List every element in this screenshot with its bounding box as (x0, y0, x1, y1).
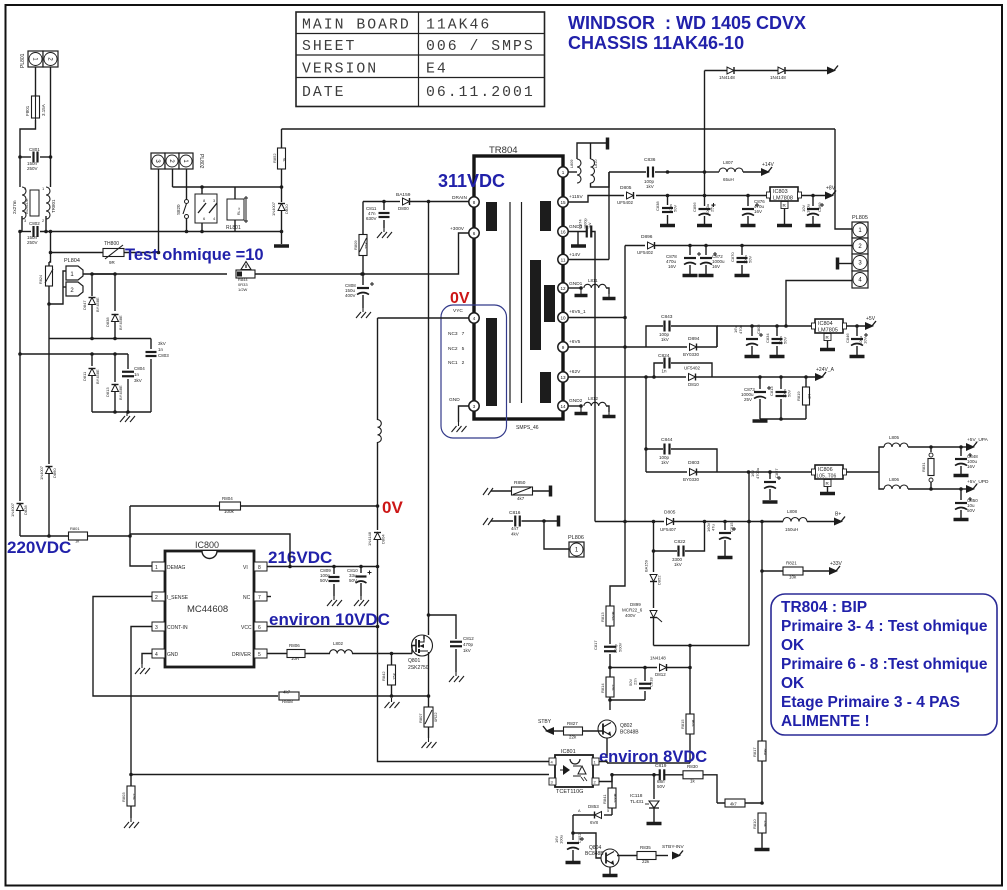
svg-text:L809: L809 (570, 160, 574, 168)
svg-text:C824: C824 (658, 353, 670, 359)
svg-text:R852: R852 (272, 153, 277, 163)
svg-text:GND1: GND1 (569, 281, 583, 287)
wire R830 right down (703, 775, 717, 803)
svg-text:C822: C822 (674, 539, 686, 545)
svg-text:D894: D894 (688, 336, 700, 342)
capacitor C815 47u 160V (706, 522, 736, 557)
IC800 pin6 VCC (241, 622, 267, 631)
ground bar TL431 (647, 822, 662, 826)
svg-text:006 / SMPS: 006 / SMPS (426, 39, 535, 55)
svg-text:1kV: 1kV (661, 337, 669, 342)
wire VI pin8 (130, 534, 290, 567)
svg-text:1k: 1k (282, 158, 287, 162)
wire DEMAG vertical (128, 506, 152, 566)
svg-text:STBY-INV: STBY-INV (662, 844, 684, 850)
wire pin1 to L809 (568, 171, 577, 173)
svg-text:+14V: +14V (762, 162, 774, 168)
wire 14V riser (608, 172, 610, 260)
wire L805 branch (879, 447, 884, 472)
svg-text:1kV: 1kV (646, 184, 654, 189)
diode D805 UF5402 (617, 185, 634, 205)
wire I_SENSE (93, 597, 152, 697)
wire opto pin2 right (599, 773, 654, 782)
ground R807 (422, 738, 437, 748)
svg-text:IC803: IC803 (773, 189, 788, 195)
svg-text:D860: D860 (52, 468, 57, 478)
wire to Q804 base (573, 833, 601, 858)
svg-text:MCR22_6: MCR22_6 (622, 608, 643, 613)
svg-text:8: 8 (473, 200, 476, 205)
blue box around primary gnd (441, 305, 507, 438)
svg-text:IC801: IC801 (561, 749, 576, 755)
ground C812 (449, 672, 464, 682)
svg-text:+5V: +5V (866, 316, 876, 322)
capacitor C811 47n 630V (366, 202, 390, 229)
svg-text:D852: D852 (657, 575, 662, 585)
svg-text:D812: D812 (655, 672, 666, 677)
svg-text:15: 15 (560, 200, 566, 205)
wire D820 to bus (280, 211, 284, 233)
diode D894 BY0330 (646, 336, 717, 357)
svg-text:UF5402: UF5402 (684, 366, 701, 371)
svg-text:IC804: IC804 (818, 321, 833, 327)
inductor L803 vertical (378, 318, 382, 442)
wire R813 chain top (610, 522, 625, 607)
wire contacts to bus (200, 223, 204, 233)
thermistor TH800 9R (103, 241, 124, 265)
wire x762 drop (761, 522, 763, 572)
wire +33V row (760, 569, 783, 573)
inductor L802 (330, 641, 353, 654)
svg-text:GND2: GND2 (569, 398, 583, 404)
svg-text:5: 5 (607, 809, 609, 813)
ground snubber (120, 412, 135, 422)
svg-text:D810: D810 (688, 382, 699, 387)
wire R827 to base (583, 730, 604, 732)
svg-text:L811: L811 (588, 278, 598, 283)
resistor R803 2k2 (121, 773, 137, 818)
svg-text:R801: R801 (70, 526, 80, 531)
wire emitter to R815 row (607, 762, 690, 764)
svg-text:BY458E: BY458E (95, 369, 100, 384)
svg-text:MC44608: MC44608 (187, 604, 228, 615)
svg-text:2k2: 2k2 (132, 793, 137, 800)
svg-text:C846: C846 (845, 333, 850, 343)
resistor R835 22k (637, 845, 656, 864)
svg-text:+33V: +33V (830, 561, 842, 567)
resistor R844 0R33 fusible (236, 270, 255, 292)
svg-text:1: 1 (562, 170, 565, 175)
svg-text:50V: 50V (748, 256, 753, 263)
note 216VDC (268, 548, 332, 567)
svg-text:25K: 25K (364, 242, 369, 249)
TR804 sec winding bar 1 (540, 201, 551, 231)
TR804 pin16 GND3 (558, 224, 583, 237)
wire TR801 left down (20, 216, 22, 231)
capacitor C870 100n 50V (730, 244, 753, 274)
wire Q802 collector (608, 698, 612, 710)
note box TR804 BIP (771, 594, 997, 735)
ground bar C878 (683, 274, 698, 278)
svg-text:R819: R819 (796, 391, 801, 401)
TR804 pin15 +115V (558, 194, 584, 207)
capacitor C810 33u 50V (347, 567, 372, 597)
svg-text:NC2 5: NC2 5 (448, 346, 465, 352)
svg-text:D847: D847 (82, 300, 87, 310)
svg-text:LM7805: LM7805 (818, 328, 838, 334)
svg-text:1/2W: 1/2W (238, 287, 248, 292)
wire PL802 pin3 down (158, 169, 160, 253)
IC IC804 LM7805 (812, 319, 847, 334)
svg-text:D828: D828 (23, 505, 28, 515)
svg-text:BA159: BA159 (644, 559, 649, 572)
note 311VDC (438, 171, 505, 191)
svg-text:R804: R804 (222, 496, 233, 501)
wire L802 to gate (352, 652, 412, 656)
svg-text:R821: R821 (786, 561, 797, 566)
TR804 pin10 +6V5_1 (558, 309, 586, 323)
wire to TH800 (51, 252, 104, 254)
svg-text:C802: C802 (29, 221, 40, 226)
terminal bar PL805 pin3 (838, 258, 853, 270)
wire L810 bottom (591, 172, 610, 187)
svg-text:TH800: TH800 (104, 241, 119, 247)
capacitor C848 100u 16V (955, 447, 978, 474)
svg-text:100u: 100u (806, 204, 811, 213)
TR804 core lines (510, 202, 522, 403)
ground C810 (354, 596, 369, 606)
TR804 pin6 +300V (450, 226, 479, 238)
connector PL804 (64, 258, 83, 296)
arrow +33V (829, 561, 842, 575)
svg-text:4k7: 4k7 (730, 802, 737, 807)
note environ 10VDC (269, 610, 390, 629)
svg-text:ALIMENTE !: ALIMENTE ! (781, 713, 870, 730)
svg-text:47u: 47u (711, 524, 716, 531)
svg-text:1N4007: 1N4007 (39, 465, 44, 480)
wire bus 274 to R844 (92, 272, 227, 276)
svg-text:4: 4 (473, 316, 476, 321)
wire left rail to TR801 (18, 155, 22, 187)
capacitor C801 150n 250V (20, 147, 51, 171)
capacitor C852 100u 16V (554, 833, 584, 861)
TR804 pin9 +6V5 (558, 339, 581, 352)
IC800 pin7 NC (243, 592, 271, 601)
svg-text:150R: 150R (611, 611, 616, 621)
wire rail bottom row (20, 534, 69, 538)
ground bar C872 (699, 274, 714, 278)
svg-text:R815: R815 (680, 719, 685, 729)
svg-text:25V: 25V (710, 205, 715, 212)
svg-text:+24V_A: +24V_A (816, 367, 835, 373)
svg-text:4700u: 4700u (755, 468, 760, 479)
TR804 pin14 GND2 (558, 398, 583, 411)
svg-text:+8V: +8V (826, 186, 836, 192)
wire opto pin1 up (599, 762, 607, 764)
wire C836 row (609, 170, 705, 174)
capacitor C874 1000p 1kV (578, 218, 593, 237)
capacitor C824 snubber 1n 3kV (654, 353, 712, 377)
svg-text:470u: 470u (738, 325, 743, 334)
IC801 pin3 (549, 778, 556, 785)
TR804 pin8 DRAIN (452, 195, 479, 207)
svg-text:R842: R842 (381, 671, 386, 681)
resistor R852 1k (272, 129, 287, 202)
svg-text:C806: C806 (756, 324, 761, 334)
TR804 sec winding bar 2 (530, 260, 541, 350)
svg-text:R810: R810 (752, 819, 757, 829)
wire IC804 out (847, 324, 867, 328)
resistor R807 fusible (418, 707, 438, 738)
diode D803 BY0330 (646, 460, 813, 482)
resistor R815 10R (680, 668, 696, 764)
wire fuse to left rail (20, 120, 36, 157)
svg-text:RL u: RL u (237, 208, 241, 215)
capacitor C838 100n 50V (655, 196, 678, 225)
wire R804 bus 506 (130, 505, 378, 507)
ground bar C848 (954, 474, 969, 478)
wire x704 from top (703, 71, 707, 198)
svg-text:C827: C827 (774, 468, 779, 478)
ground bar C808b (745, 355, 760, 359)
svg-text:3kV: 3kV (158, 341, 166, 346)
svg-text:2x27m: 2x27m (12, 200, 17, 214)
svg-text:R830: R830 (687, 764, 698, 769)
TR804 sec winding bar 4 (540, 372, 551, 403)
svg-text:10R: 10R (691, 720, 696, 727)
capacitor C818 22n 50V (628, 668, 654, 701)
svg-text:C801: C801 (29, 147, 40, 152)
ground R842 (385, 698, 400, 708)
wire gate (412, 646, 416, 654)
svg-text:R841: R841 (602, 794, 607, 804)
diode D860 1N4007 (39, 339, 57, 537)
svg-text:L806: L806 (889, 477, 900, 482)
wire PL801 pin1 down (35, 67, 37, 96)
svg-text:BY458E: BY458E (118, 385, 123, 400)
diode D852 BA159 (644, 549, 662, 608)
wire drain down (427, 202, 431, 636)
TR804 pin13 +62V (558, 369, 581, 382)
wire R821 right (803, 570, 830, 572)
wire D812 up (689, 646, 691, 668)
svg-text:IC800: IC800 (195, 540, 219, 550)
IC800 pin8 VI (243, 562, 267, 571)
svg-text:1N4148: 1N4148 (770, 75, 786, 80)
svg-text:11AK46: 11AK46 (426, 18, 491, 34)
svg-text:R850: R850 (514, 480, 526, 486)
svg-text:1N4007: 1N4007 (10, 502, 15, 517)
ground bar IC806 (820, 492, 835, 496)
IC804 ground pin (824, 334, 831, 349)
arrow +5V_UPD (961, 479, 989, 493)
resistor R810 3k2 (752, 801, 768, 848)
svg-text:68k: 68k (763, 749, 768, 755)
wire left rail down from bus (49, 253, 51, 263)
svg-text:630V: 630V (366, 216, 377, 221)
note 0V mid (382, 498, 403, 517)
diode D810 UF5402 (684, 366, 816, 388)
svg-text:+6V5: +6V5 (569, 339, 581, 345)
wire snubber row 338 (49, 304, 151, 340)
svg-text:10k: 10k (789, 575, 797, 580)
inductor L811 (584, 278, 606, 288)
wire 1N4148 row (705, 70, 828, 72)
svg-text:3.15A: 3.15A (41, 104, 46, 116)
svg-text:10R: 10R (291, 656, 300, 661)
svg-text:1kV: 1kV (588, 222, 592, 229)
ground bar 24V (753, 419, 768, 423)
svg-text:R817: R817 (752, 747, 757, 757)
wire D838 bottom (114, 322, 116, 339)
line filter TR801 (12, 186, 56, 223)
svg-text:R814: R814 (600, 683, 605, 693)
svg-text:UF5407: UF5407 (660, 527, 677, 532)
svg-text:2: 2 (155, 595, 158, 601)
wire pin9 row (568, 346, 646, 348)
TR804 sec winding bar 3 (544, 285, 555, 322)
arrow +24V_A (815, 367, 835, 381)
ground C808 (356, 308, 371, 318)
svg-text:E4: E4 (426, 62, 448, 78)
svg-text:R809: R809 (353, 240, 358, 250)
svg-text:CONT-IN: CONT-IN (167, 625, 188, 631)
note Test ohmique (125, 246, 264, 264)
svg-text:C816: C816 (509, 510, 521, 516)
wire relay top bus (173, 185, 282, 189)
svg-text:DEMAG: DEMAG (167, 565, 185, 571)
svg-text:0V: 0V (382, 498, 403, 517)
diode D853 6V8 (573, 804, 612, 825)
diode D811 BY458 (82, 352, 100, 412)
wire snubber bottom row (92, 410, 151, 414)
wire PL804 left bracket (47, 271, 66, 306)
svg-text:R808: R808 (282, 699, 293, 704)
svg-text:6: 6 (473, 231, 476, 236)
wire switched mains up (282, 128, 836, 130)
svg-text:L805: L805 (889, 435, 900, 440)
svg-text:Etage Primaire 3 - 4 PAS: Etage Primaire 3 - 4 PAS (781, 694, 960, 711)
svg-text:C852: C852 (577, 833, 582, 843)
svg-text:50V: 50V (673, 205, 678, 212)
svg-text:BY458E: BY458E (118, 315, 123, 330)
ground bar C834 (770, 355, 785, 359)
svg-text:50V: 50V (787, 390, 792, 397)
diode D847 BY458 (82, 297, 100, 312)
capacitor C809 100n 50V (320, 567, 340, 597)
wire row 667 (608, 666, 657, 670)
svg-text:BY0330: BY0330 (683, 477, 700, 482)
IC806 ground pin (824, 480, 831, 493)
IC800 pin2 I_SENSE (152, 592, 189, 601)
svg-text:1N4148: 1N4148 (650, 656, 666, 661)
svg-text:+5V_UPD: +5V_UPD (967, 479, 989, 485)
IC800 pin5 DRIVER (232, 649, 267, 658)
resistor R841 100R (602, 775, 618, 815)
svg-text:R824: R824 (39, 275, 43, 284)
svg-text:4k7: 4k7 (517, 496, 525, 501)
wire source down (427, 652, 431, 707)
svg-text:C819: C819 (655, 763, 667, 769)
svg-text:VERSION: VERSION (302, 62, 378, 78)
svg-text:SHEET: SHEET (302, 39, 356, 55)
svg-text:1: 1 (155, 565, 158, 571)
ground bar C856 (697, 224, 712, 228)
resistor R806 10R (287, 643, 305, 661)
svg-text:6: 6 (258, 625, 261, 631)
wire bus274 corner down D847 (90, 272, 94, 296)
wire fb junction (717, 802, 762, 804)
svg-text:R803: R803 (121, 792, 126, 802)
svg-text:CHASSIS 11AK46-10: CHASSIS 11AK46-10 (568, 33, 744, 53)
ground bar GND2 right (603, 412, 616, 417)
resistor R831 (921, 447, 934, 489)
svg-text:D811: D811 (82, 371, 87, 381)
IC800 pin3 CONT-IN (152, 622, 188, 631)
svg-text:470p: 470p (463, 642, 474, 647)
note 220VDC (7, 538, 71, 557)
wire pin12 row (568, 286, 583, 290)
svg-text:D805: D805 (620, 185, 632, 191)
svg-text:1kV: 1kV (661, 460, 669, 465)
svg-text:16V: 16V (754, 209, 762, 214)
capacitor C808 150u 400V (345, 282, 374, 308)
svg-text:TL431: TL431 (630, 799, 644, 805)
svg-text:50V: 50V (320, 578, 328, 583)
ground bar C827 (763, 500, 778, 504)
resistor R829 4k7 (725, 799, 745, 807)
svg-text:6V8: 6V8 (590, 820, 599, 825)
svg-text:1n: 1n (158, 347, 164, 352)
inductor L810 (591, 159, 599, 183)
wire L811 right (606, 288, 609, 294)
transformer TR804 body (474, 145, 563, 431)
wire L806 right (908, 487, 963, 491)
arrow +8V (825, 186, 836, 200)
svg-text:BY0330: BY0330 (683, 352, 700, 357)
resistor R804 100k (220, 496, 241, 514)
note 0V top red (450, 290, 470, 307)
wire DRAIN to node (429, 201, 469, 203)
svg-text:50V: 50V (349, 578, 357, 583)
svg-text:BC848B: BC848B (585, 851, 604, 857)
IC801 pin4 (549, 758, 556, 765)
svg-text:2SK2750: 2SK2750 (408, 665, 429, 671)
svg-text:1N4007: 1N4007 (271, 201, 276, 216)
wire L812 right (606, 406, 609, 412)
svg-text:11: 11 (561, 257, 566, 262)
svg-text:16V: 16V (668, 264, 676, 269)
svg-text:D804: D804 (381, 534, 386, 544)
svg-text:D899: D899 (630, 602, 641, 607)
svg-text:R813: R813 (600, 612, 605, 622)
svg-text:L802: L802 (333, 641, 344, 646)
arrow B+ (834, 512, 845, 526)
svg-text:NC3 7: NC3 7 (448, 331, 465, 337)
svg-text:L808: L808 (787, 509, 798, 514)
svg-text:10V: 10V (863, 337, 868, 344)
resistor R808 4k7 (279, 690, 299, 705)
wire right rail to TR801 (49, 155, 53, 187)
svg-text:12: 12 (560, 286, 566, 291)
svg-text:15K: 15K (392, 673, 397, 680)
svg-text:R807: R807 (418, 713, 423, 723)
svg-text:TR804: TR804 (489, 145, 518, 156)
diode D800 BA159 (384, 192, 430, 211)
wire L806 branch (879, 472, 884, 489)
capacitor C878 470u 16V (666, 244, 701, 274)
svg-text:L812: L812 (588, 396, 599, 401)
